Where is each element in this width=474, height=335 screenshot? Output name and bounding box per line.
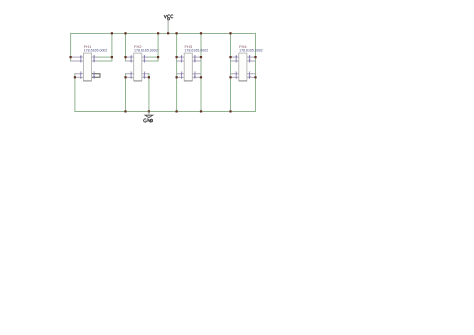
svg-text:178.6165.0002: 178.6165.0002 <box>239 49 263 53</box>
svg-text:178.6165.0002: 178.6165.0002 <box>84 49 108 53</box>
svg-text:178.6165.0002: 178.6165.0002 <box>185 49 209 53</box>
svg-text:178.6165.0002: 178.6165.0002 <box>134 49 158 53</box>
